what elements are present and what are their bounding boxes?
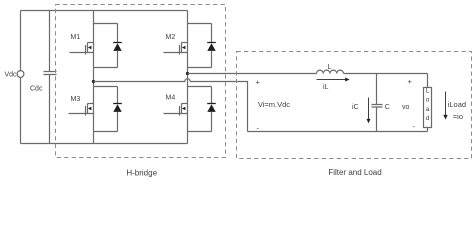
svg-text:+: + (408, 77, 413, 86)
Filter and Load dashed box (237, 52, 472, 159)
svg-text:L: L (426, 88, 430, 95)
svg-text:+: + (256, 77, 261, 86)
wire top rail (21, 10, 188, 12)
diode D1 (94, 24, 118, 68)
svg-text:=io: =io (453, 112, 463, 121)
H-bridge dashed box (56, 5, 226, 158)
svg-text:H-bridge: H-bridge (126, 169, 157, 178)
transistor M3 (69, 87, 94, 132)
svg-text:M1: M1 (71, 34, 81, 41)
diode D2 (188, 24, 212, 68)
wire load bottom vertical (427, 128, 429, 132)
wire filter bottom rail (248, 131, 428, 133)
diode D4 (188, 87, 212, 132)
wire output bottom with crossover hop (94, 79, 248, 132)
arrow iLoad (445, 92, 447, 116)
wire right half-bridge vertical (187, 11, 189, 144)
svg-text:iC: iC (352, 104, 359, 111)
arrow iL (317, 79, 346, 81)
node right midpoint junction (186, 72, 189, 75)
svg-text:Cdc: Cdc (30, 86, 43, 93)
svg-text:M3: M3 (71, 96, 81, 103)
wire Cdc branch upper (49, 11, 51, 72)
svg-text:iLoad: iLoad (448, 100, 466, 109)
transistor M1 (70, 24, 94, 68)
load box (424, 88, 432, 128)
node left midpoint junction (92, 80, 95, 83)
svg-text:a: a (426, 106, 430, 113)
svg-text:Filter and Load: Filter and Load (328, 168, 381, 177)
svg-text:M2: M2 (166, 34, 176, 41)
svg-text:Vi=m.Vdc: Vi=m.Vdc (258, 100, 290, 109)
transistor M2 (164, 24, 188, 68)
svg-text:L: L (328, 64, 332, 71)
svg-text:-: - (413, 122, 416, 131)
svg-text:C: C (385, 104, 390, 111)
wire left half-bridge vertical (93, 11, 95, 144)
svg-text:iL: iL (323, 84, 329, 91)
svg-text:Vdc: Vdc (5, 72, 18, 79)
wire left vertical below source (20, 77, 22, 143)
wire output top (right midpoint to filter) (188, 74, 428, 88)
wire bottom rail (21, 143, 188, 145)
wire Cdc branch lower (49, 75, 51, 144)
transistor M4 (164, 87, 188, 132)
wire left vertical above source (20, 11, 22, 71)
capacitor Cdc (44, 72, 57, 75)
svg-text:vo: vo (402, 104, 410, 111)
diode D3 (94, 87, 118, 132)
svg-text:d: d (426, 115, 430, 122)
svg-text:M4: M4 (166, 95, 176, 102)
svg-text:o: o (426, 97, 430, 104)
arrow iC (368, 98, 370, 120)
dc source Vdc (17, 71, 24, 78)
inductor L (317, 70, 344, 73)
capacitor C (372, 74, 383, 132)
